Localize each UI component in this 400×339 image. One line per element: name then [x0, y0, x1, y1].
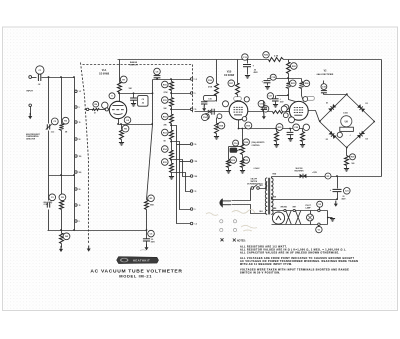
transformer T1 — [265, 178, 273, 215]
ground R25 — [274, 145, 279, 148]
resistor R11 — [170, 98, 174, 107]
ground R9 — [119, 143, 124, 146]
wire B+ right bus — [381, 60, 383, 177]
wire fuse top stub — [319, 208, 321, 210]
resistor R6 grid stopper — [93, 109, 100, 111]
resistor R14 — [170, 151, 174, 160]
wire R24 to V2 pin — [302, 89, 304, 102]
svg-text:SWITCH: SWITCH — [251, 181, 258, 183]
svg-text:5: 5 — [195, 209, 196, 211]
node cathode bus top — [152, 92, 154, 94]
svg-text:(CAL) ADJUSTS: (CAL) ADJUSTS — [252, 141, 266, 144]
heater crossover 2 — [295, 211, 300, 225]
wire C9 stem — [133, 94, 135, 98]
resistor R27b — [301, 132, 305, 142]
svg-text:.02: .02 — [38, 84, 41, 86]
capacitor C8 — [154, 76, 161, 78]
trimmer capacitor C3 — [47, 202, 49, 207]
wire tap3b stair — [177, 144, 191, 146]
switch SW2 arm — [253, 185, 257, 188]
switch SW2 contact a — [251, 187, 254, 190]
resistor R2 label bubble — [62, 117, 69, 124]
svg-text:NOTES:: NOTES: — [237, 241, 246, 243]
diode D5 silicon — [300, 174, 307, 179]
wire pot to R23 — [242, 155, 244, 160]
ground C13 — [245, 76, 250, 79]
node CAL tap — [241, 128, 243, 130]
pencil scribble 1 — [232, 209, 255, 213]
ground R18 — [214, 137, 219, 140]
resistor R26 label bubble — [263, 52, 269, 58]
wire chain to ground — [171, 173, 173, 177]
switch SW1B contact 7 — [190, 190, 193, 193]
resistor R22 — [287, 63, 291, 74]
resistor R12 — [170, 115, 174, 124]
svg-text:1/2 6AW8: 1/2 6AW8 — [224, 74, 235, 77]
potentiometer R20 wiper — [237, 149, 241, 151]
ground C16 — [265, 87, 270, 90]
wire tap4b stair — [180, 161, 191, 163]
capacitor C21 — [333, 189, 342, 191]
tube V2 envelope — [289, 101, 308, 120]
ground heater — [330, 219, 335, 222]
wire line cord top — [232, 189, 251, 201]
resistor R25 — [275, 132, 279, 142]
svg-text:WHT: WHT — [293, 207, 297, 209]
heater crossover 1 — [286, 211, 291, 225]
node V1A cathode — [117, 123, 119, 125]
capacitor C6 label bubble — [148, 230, 155, 237]
wire secondary return — [272, 199, 338, 201]
node plate output x133 — [133, 92, 135, 94]
svg-text:HEATHKIT: HEATHKIT — [133, 259, 150, 263]
resistor R24 label bubble — [303, 80, 309, 86]
wire V1B cathode stub — [238, 120, 240, 129]
wire input ground stub — [30, 107, 32, 116]
wire V1B screen drop — [237, 60, 239, 84]
switch SW1B contact 9 — [190, 222, 193, 225]
resistor R23b label bubble — [243, 157, 250, 164]
wire divider top — [153, 79, 192, 81]
svg-text:6AL5 RECTIFIER: 6AL5 RECTIFIER — [317, 73, 334, 76]
node y95 — [287, 94, 289, 96]
aux contact 2 — [233, 220, 236, 223]
wire heater right — [327, 211, 329, 225]
resistor R5 label bubble — [148, 195, 155, 202]
wire CAL left branch — [229, 146, 243, 148]
wire C20 stem — [290, 129, 292, 132]
wire R18 ground lead — [216, 134, 218, 137]
wire rotor shaft dashed — [83, 64, 193, 66]
resistor R7 label bubble — [120, 76, 127, 83]
wire tap3 stair — [172, 126, 191, 224]
wire R23 lower — [288, 89, 290, 96]
switch SW1B contact 4 — [190, 143, 193, 146]
node R25 tap — [275, 128, 277, 130]
wire C18 lower — [263, 110, 265, 114]
wire screen to tube — [237, 95, 239, 102]
node V1B cathode — [238, 128, 240, 130]
svg-text:COMP.: COMP. — [44, 204, 49, 206]
wire bridge bottom lead — [346, 148, 348, 156]
node bubble grid stopper — [93, 101, 99, 107]
wire comp column lower — [61, 131, 63, 201]
svg-text:1/2 6AW8: 1/2 6AW8 — [99, 73, 110, 76]
node C13 rail — [246, 59, 248, 61]
switch rotor contact — [86, 108, 88, 110]
svg-text:HIGH FREQUENCY: HIGH FREQUENCY — [26, 134, 40, 136]
switch SW1A contact 9 — [75, 220, 78, 223]
ground R4 — [59, 246, 63, 252]
switch SW1A contact 5 — [75, 155, 78, 158]
wire C16 stub — [267, 79, 269, 80]
wire C13 drop — [247, 60, 249, 64]
svg-text:LAMP: LAMP — [306, 207, 312, 210]
aux contact 3 — [220, 228, 223, 231]
capacitor C20 — [287, 132, 294, 134]
wire divider tap link — [49, 175, 75, 177]
fuse bubble bottom — [316, 226, 322, 232]
resistor R13 — [170, 131, 174, 140]
capacitor C18 — [261, 107, 267, 109]
ground R28 — [344, 169, 349, 172]
svg-text:SWITCH IN 30 V POSITION.: SWITCH IN 30 V POSITION. — [240, 272, 280, 275]
svg-text:.02: .02 — [141, 102, 144, 104]
trimmer C2 arrow — [46, 124, 52, 129]
grid pin bubble V1B — [217, 114, 222, 119]
node chain tap2 — [170, 108, 172, 110]
wire C21 stem — [337, 177, 339, 189]
svg-text:50: 50 — [195, 144, 197, 146]
switch SW1B contact 6 — [190, 175, 193, 178]
wire heater bottom — [272, 224, 328, 226]
trimmer capacitor C2 — [47, 124, 49, 129]
ground switch rotor — [87, 246, 91, 252]
wire T1 secondary top — [271, 177, 273, 179]
heater tube circle — [272, 212, 284, 224]
wire CAL drop — [242, 129, 244, 145]
switch SW1B contact 2 — [190, 92, 193, 95]
ground R19 — [226, 171, 231, 174]
wire R21 to V2 — [285, 111, 290, 113]
capacitor C1 label bubble — [36, 66, 44, 74]
capacitor C16 label bubble — [270, 74, 276, 80]
wire CAL left drop — [228, 147, 230, 160]
meter pin bubble — [337, 132, 342, 137]
aux x mark 1 — [221, 238, 224, 241]
node grid entry circle — [105, 108, 108, 111]
wire chain seg5 — [171, 140, 173, 151]
svg-text:ON POWER SWITCH: ON POWER SWITCH — [247, 183, 263, 185]
pin bubble V1B lowleft — [202, 114, 209, 121]
ground C6 — [145, 244, 149, 250]
heater node b — [293, 209, 295, 211]
wire B+ top rail left — [118, 59, 269, 61]
wire C11 stem — [204, 105, 206, 106]
node chain tap1 — [170, 92, 172, 94]
capacitor C18 label bubble — [258, 100, 265, 107]
capacitor C9 — [130, 98, 137, 100]
resistor R7 plate load — [118, 83, 122, 93]
tube V1B envelope — [229, 101, 248, 120]
node C20 tap — [289, 128, 291, 130]
switch SW1A contact 4 — [75, 138, 78, 141]
heater node d — [318, 223, 320, 225]
wire tap4 stair — [172, 142, 191, 210]
wire T1 secondary bot — [271, 197, 273, 200]
wire V2 supply drop — [288, 60, 290, 63]
node bridge right — [373, 121, 375, 123]
svg-text:50: 50 — [79, 139, 81, 141]
resistor R18 — [215, 124, 219, 134]
capacitor C6 — [143, 239, 150, 241]
capacitor C17 — [272, 99, 279, 101]
resistor R12 label bubble — [162, 113, 169, 120]
node bridge top — [346, 93, 348, 95]
svg-text:HIGH FREQ.: HIGH FREQ. — [44, 202, 54, 204]
resistor R4 — [60, 234, 64, 244]
svg-text:CONTROL: CONTROL — [252, 145, 260, 147]
ground divider chain — [169, 177, 174, 180]
wire R25 gnd lead — [276, 142, 278, 145]
wire R23 stem — [288, 79, 290, 82]
svg-text:+132V: +132V — [312, 172, 318, 174]
Heathkit logo badge — [117, 257, 159, 264]
wire V1B plate drop — [216, 60, 218, 84]
svg-text:500: 500 — [79, 172, 82, 174]
wire y78 branch — [268, 78, 302, 80]
svg-text:1.5: 1.5 — [195, 79, 197, 81]
resistor R28 label bubble — [350, 154, 356, 160]
switch SW1B rotor dashed line — [192, 65, 194, 113]
ground C17 — [273, 105, 278, 108]
resistor R9 cathode — [120, 130, 124, 140]
wire C21 lower — [337, 192, 339, 200]
switch SW1A contact 7 — [75, 188, 78, 191]
wire comp column to bottom rail — [61, 210, 63, 231]
wire R5 upper lead — [146, 199, 148, 201]
wire B+ top rail right — [284, 59, 382, 61]
node input/x74 junction — [73, 76, 75, 78]
resistor R10 — [170, 82, 174, 91]
diode D2 — [357, 104, 365, 112]
node input/x61 junction — [60, 76, 62, 78]
svg-text:RANGE: RANGE — [130, 61, 138, 64]
wire chain stub1 — [171, 80, 173, 82]
heater node c — [318, 209, 320, 211]
wire switch to primary — [260, 183, 267, 189]
pilot lamp PL1 — [307, 214, 314, 221]
wire to V2 pin — [289, 96, 296, 102]
svg-text:150: 150 — [79, 156, 82, 158]
wire C17 stub — [275, 96, 277, 99]
wire V1A grid b — [100, 109, 110, 111]
tube V1B socket detail — [234, 107, 243, 115]
wire R9 stem — [121, 125, 123, 130]
svg-text:2.7K: 2.7K — [274, 56, 279, 58]
ground R23b — [240, 171, 245, 174]
pencil scribble 3 — [241, 225, 257, 231]
wire V1A cathode stub — [118, 119, 120, 125]
meter terminal block — [340, 127, 354, 131]
capacitor C21 label bubble — [344, 188, 351, 195]
wire line cord bottom — [232, 205, 267, 214]
svg-text:V1: V1 — [277, 212, 279, 214]
wire C18 stub — [263, 101, 265, 107]
node heater gnd tap — [327, 217, 329, 219]
wire chain seg4 — [171, 124, 173, 131]
resistor R15 label bubble — [162, 159, 169, 166]
diode D1 — [328, 104, 336, 112]
svg-text:560: 560 — [352, 163, 355, 165]
node cathode bus x124 — [151, 123, 153, 125]
wire R16 lower — [216, 96, 218, 102]
resistor R16 — [215, 84, 219, 96]
ground input terminal — [28, 113, 32, 119]
node divider top x171 — [170, 78, 172, 80]
wire heater top — [272, 210, 328, 212]
pencil scribble 2 — [206, 213, 218, 216]
svg-text:INPUT: INPUT — [27, 91, 34, 93]
switch SW2 contact b — [257, 187, 260, 190]
pin bubble V1B top — [244, 97, 249, 102]
svg-text:C10: C10 — [208, 98, 211, 100]
wire V1A grid — [85, 109, 93, 111]
svg-text:500: 500 — [195, 176, 198, 178]
wire tap5 stair — [172, 160, 191, 177]
wire R22 lower — [288, 74, 290, 79]
bridge edge top-left — [320, 95, 347, 122]
trimmer C3 arrow — [46, 102, 52, 207]
capacitor C1 — [38, 74, 40, 81]
wire R9 to ground — [121, 140, 123, 143]
resistor R25 label bubble — [276, 124, 283, 131]
node bubble grid pin — [102, 102, 108, 108]
node bottom rail x146 — [146, 229, 148, 231]
wire V1B grid — [195, 111, 230, 113]
ground R27b — [300, 145, 305, 148]
switch SW1B contact 5 — [190, 160, 193, 163]
wire R7 to plate node — [119, 93, 121, 94]
svg-text:3-12: 3-12 — [51, 132, 54, 134]
node C21 top — [336, 175, 338, 177]
wire C19 to bridge top — [324, 94, 347, 96]
svg-text:D2: D2 — [366, 103, 368, 105]
resistor R23 label bubble — [290, 80, 296, 86]
meter M1 — [341, 116, 352, 127]
resistor R4 label bubble — [63, 233, 70, 240]
fuse bubble top — [317, 201, 323, 207]
wire box to cap — [204, 101, 206, 103]
pin bubble V2 left2 — [283, 113, 288, 118]
capacitor C14b label bubble — [233, 140, 239, 146]
resistor R10 label bubble — [162, 81, 169, 88]
resistor R18 label bubble — [218, 122, 225, 129]
switch SW1A contact 2 — [75, 106, 78, 109]
wire C8 to divider — [157, 78, 159, 80]
wire cathode bus vertical — [147, 80, 153, 200]
resistor R22 label bubble — [291, 63, 298, 70]
switch SW1A contact 6 — [75, 171, 78, 174]
ground PSU — [334, 201, 338, 207]
wire R28 gnd lead — [346, 166, 348, 169]
wire cathode bus right — [239, 128, 309, 130]
switch SW1B contact 8 — [190, 208, 193, 211]
input ground terminal — [29, 104, 32, 107]
wire R27b gnd lead — [302, 142, 304, 145]
capacitor C19 label bubble — [321, 84, 327, 90]
wire B+ secondary RED — [272, 176, 382, 178]
wire R4 to ground — [61, 244, 63, 248]
wire 1M column to bottom rail — [48, 210, 50, 231]
svg-text:5: 5 — [195, 93, 196, 95]
pin bubble V1B bot2 — [245, 122, 252, 129]
capacitor C17 label bubble — [267, 93, 273, 99]
wire R18 stem — [216, 118, 218, 124]
svg-text:5: 5 — [79, 107, 80, 109]
svg-text:UA: UA — [345, 121, 349, 124]
wire plate into tube — [119, 94, 121, 102]
capacitor C13 — [243, 65, 251, 67]
heater node a — [284, 209, 286, 211]
resistor R21 label bubble — [262, 106, 269, 113]
svg-text:D3: D3 — [326, 139, 328, 141]
wire heater gnd stub — [328, 217, 333, 219]
svg-text:# 54-2: # 54-2 — [254, 167, 261, 170]
svg-text:15: 15 — [195, 109, 197, 111]
capacitor C13 label bubble — [242, 54, 248, 60]
wire pilot top — [310, 211, 312, 215]
trimmer C3 label bubble — [49, 194, 56, 201]
bridge edge bottom-right — [347, 122, 375, 148]
resistor R17 label bubble — [228, 80, 235, 87]
svg-text:V1B: V1B — [227, 72, 232, 74]
capacitor C20 label bubble — [293, 124, 300, 131]
svg-text:C9: C9 — [142, 99, 144, 101]
wire C16 lower — [267, 83, 269, 86]
tube V1A envelope — [109, 101, 126, 118]
wire tap1 to contact — [172, 93, 191, 95]
value box C9 — [138, 96, 148, 107]
bridge edge top-right — [347, 95, 375, 122]
resistor R28 — [345, 156, 349, 166]
switch SW1A rotor dashed line — [81, 63, 89, 245]
pin bubble V2 left1 — [281, 106, 287, 112]
capacitor C11 grid — [201, 102, 207, 104]
wire tap6 stair — [172, 173, 191, 192]
resistor R17 — [236, 84, 240, 95]
resistor R27b label bubble — [303, 124, 309, 130]
trimmer C2 label bubble — [51, 118, 58, 125]
resistor R16 label bubble — [207, 77, 214, 84]
resistor R14 label bubble — [162, 146, 169, 153]
resistor R23b — [241, 160, 245, 168]
svg-text:50: 50 — [79, 189, 81, 191]
node bottom rail x61 — [60, 229, 62, 231]
svg-text:150: 150 — [195, 161, 198, 163]
resistor R15 — [170, 164, 174, 173]
svg-text:D1: D1 — [326, 103, 328, 105]
svg-text:V1A: V1A — [102, 69, 107, 72]
rectifier label bubble — [325, 173, 331, 179]
resistor R23 — [287, 82, 291, 89]
wire C13 lower — [247, 67, 249, 75]
switch SW1A contact 8 — [75, 204, 78, 207]
wire V2 to bridge — [309, 111, 320, 122]
node y78 branch — [287, 77, 289, 79]
aux contact 4 — [233, 228, 236, 231]
node bridge bottom — [346, 147, 348, 149]
